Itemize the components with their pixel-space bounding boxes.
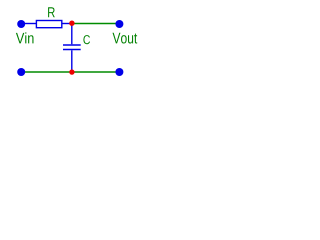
node Vout terminal [115, 20, 123, 28]
label Vout [113, 33, 138, 44]
node bottom-left terminal [17, 68, 25, 76]
junction top [69, 21, 74, 26]
node bottom-right terminal [115, 68, 123, 76]
capacitor C [63, 24, 81, 73]
node Vin terminal [17, 20, 25, 28]
wire resistor right lead [62, 23, 72, 25]
junction bottom [69, 69, 74, 74]
wire bottom rail [21, 71, 119, 73]
label C [83, 35, 90, 44]
wire top output [72, 23, 120, 25]
label Vin [16, 32, 34, 43]
resistor R [36, 21, 61, 28]
label R [48, 7, 55, 17]
wire resistor left lead [21, 23, 36, 25]
